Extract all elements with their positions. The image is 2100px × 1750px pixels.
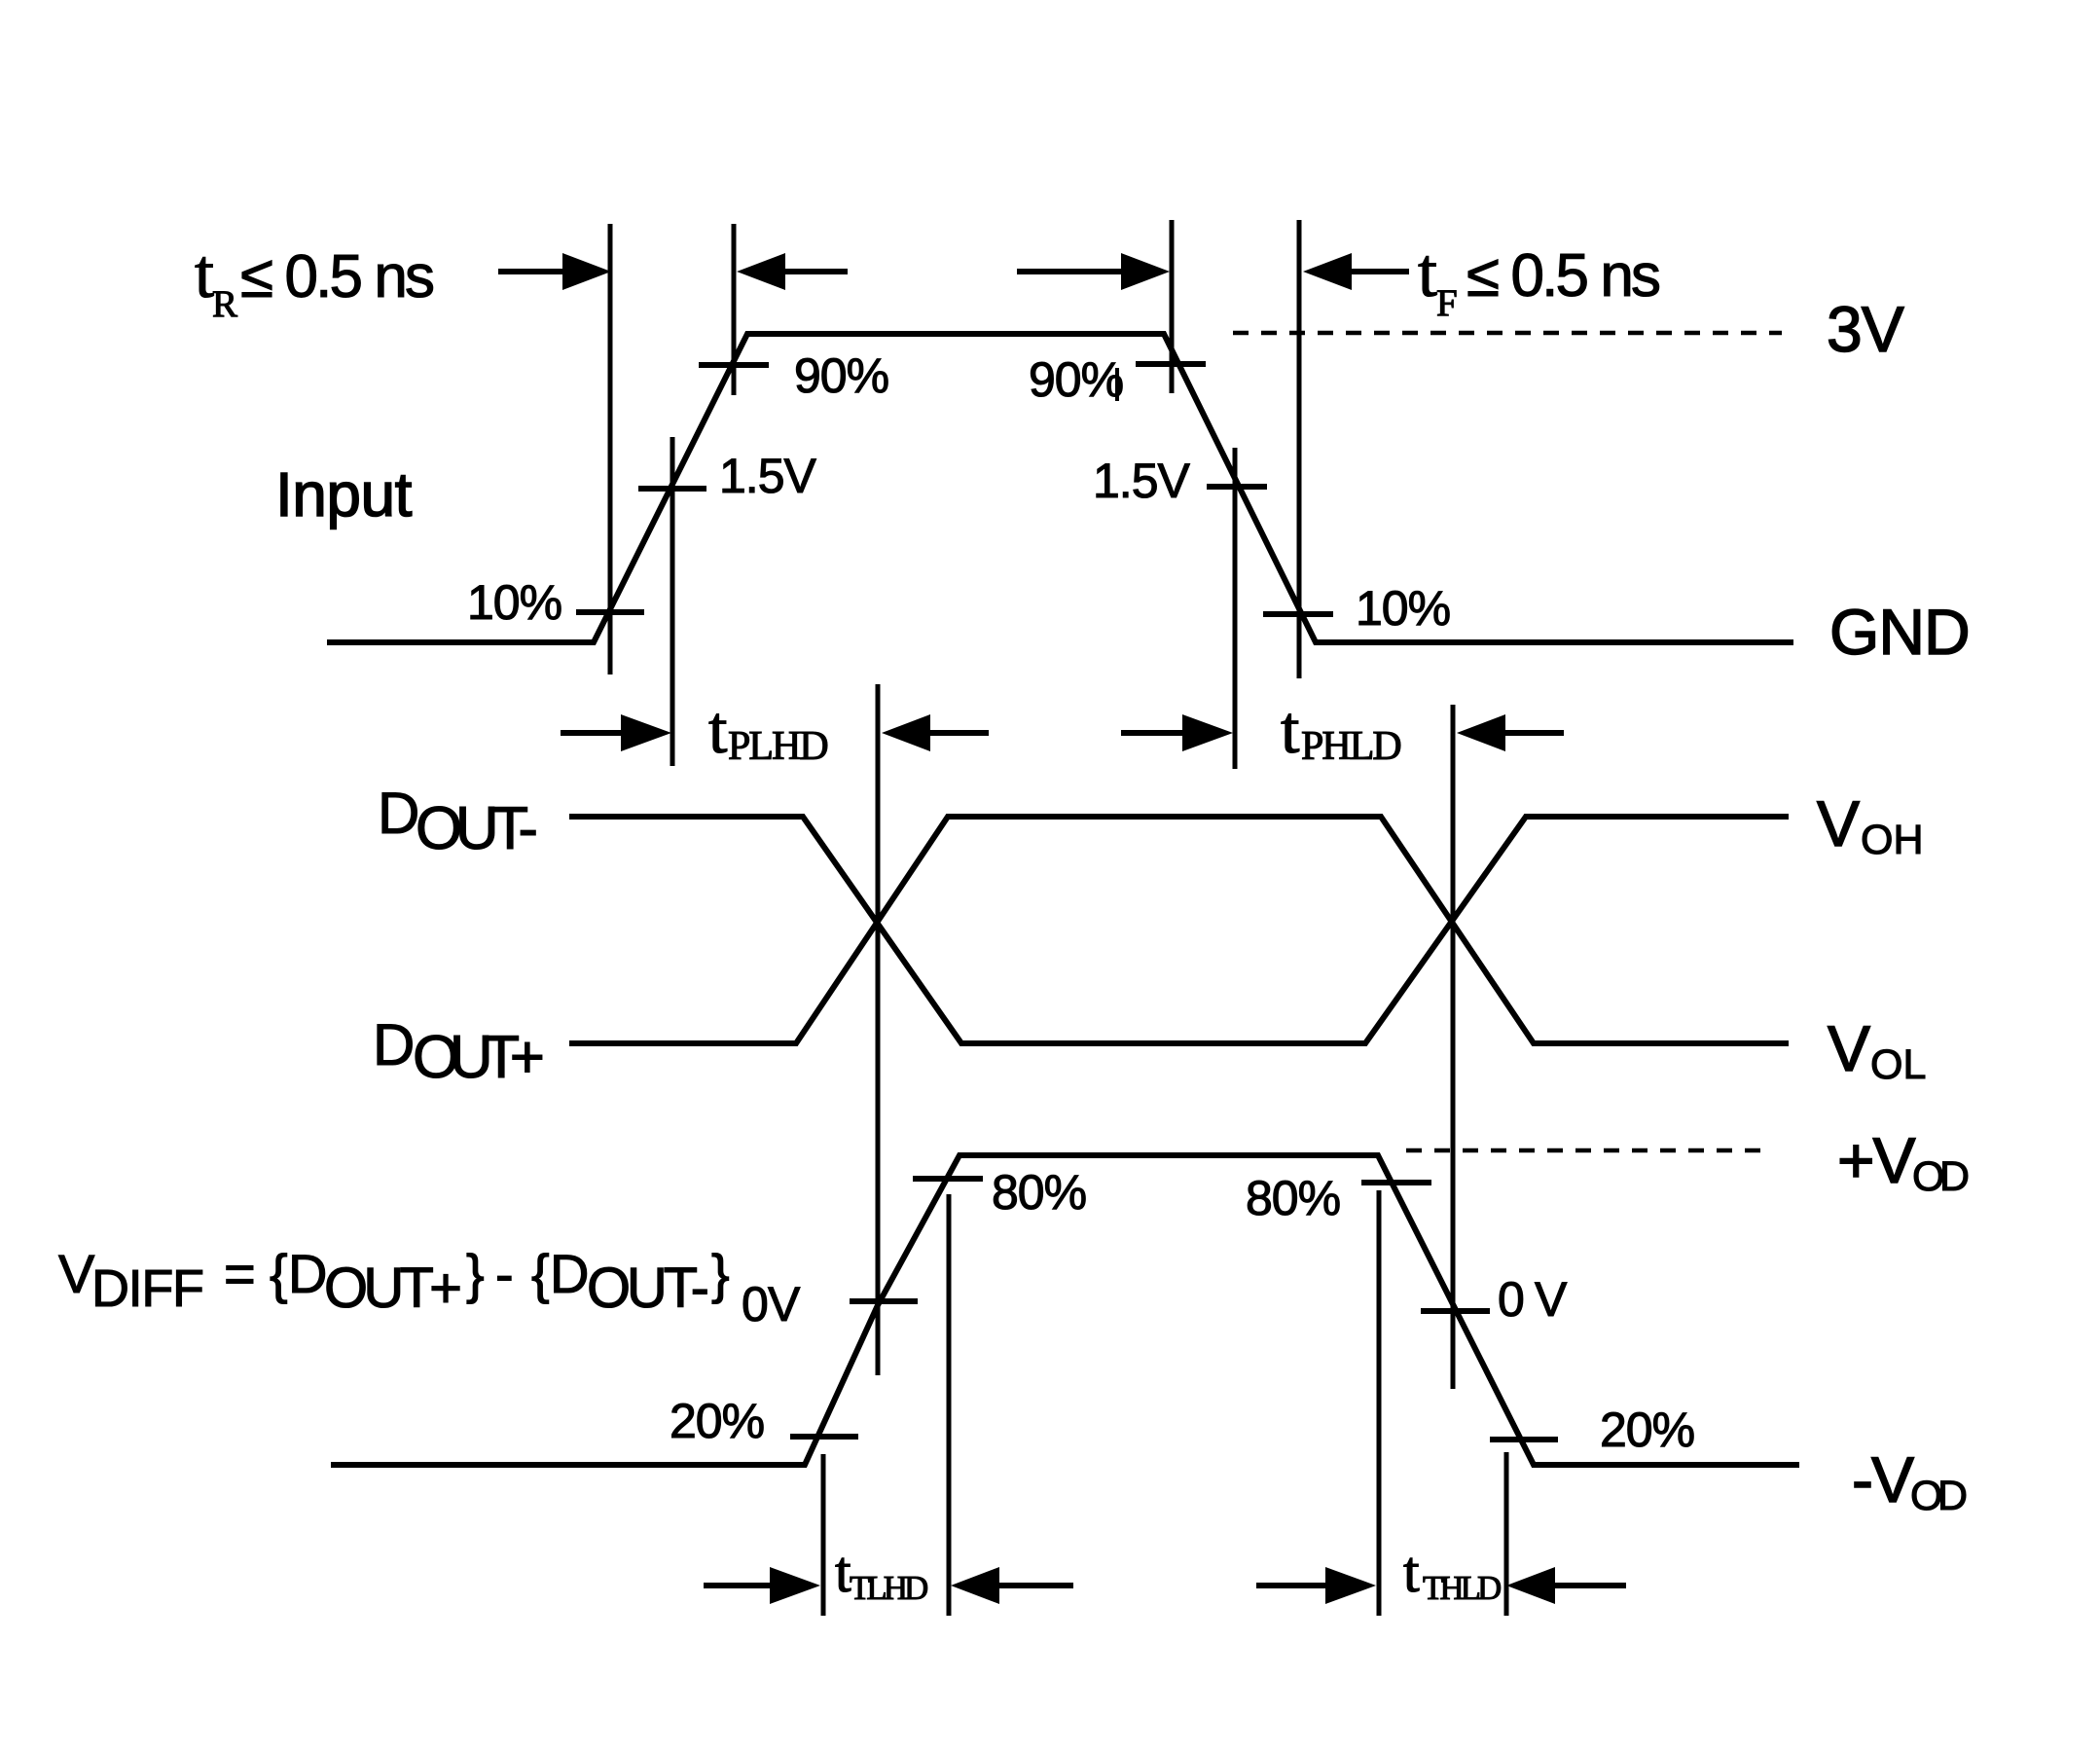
svg-text:=: = xyxy=(224,1243,256,1304)
svg-text:V: V xyxy=(58,1243,95,1304)
svg-text:{: { xyxy=(531,1243,550,1304)
svg-text:GND: GND xyxy=(1829,596,1970,668)
svg-text:PHLD: PHLD xyxy=(1301,724,1400,769)
svg-text:10%: 10% xyxy=(467,575,561,630)
svg-text:20%: 20% xyxy=(670,1394,764,1448)
svg-text:90%: 90% xyxy=(1029,352,1123,407)
svg-text:OUT-: OUT- xyxy=(416,795,538,862)
svg-text:t: t xyxy=(1281,693,1300,768)
svg-text:D: D xyxy=(550,1243,589,1304)
svg-text:-V: -V xyxy=(1852,1443,1914,1515)
svg-text:D: D xyxy=(288,1243,327,1304)
svg-text:F: F xyxy=(1436,282,1458,324)
svg-text:10%: 10% xyxy=(1356,581,1450,636)
svg-text:}: } xyxy=(711,1243,730,1304)
svg-text:Input: Input xyxy=(275,459,413,529)
svg-text:OL: OL xyxy=(1870,1041,1926,1088)
svg-text:80%: 80% xyxy=(1246,1171,1340,1225)
svg-text:}: } xyxy=(466,1243,485,1304)
svg-text:-: - xyxy=(495,1243,514,1304)
svg-text:V: V xyxy=(1828,1012,1870,1084)
svg-text:t: t xyxy=(1418,234,1437,311)
svg-text:80%: 80% xyxy=(992,1165,1086,1220)
svg-text:20%: 20% xyxy=(1600,1403,1694,1457)
svg-text:V: V xyxy=(768,1277,801,1331)
svg-text:OUT-: OUT- xyxy=(587,1257,709,1320)
svg-text:1.5V: 1.5V xyxy=(719,449,817,503)
svg-text:OH: OH xyxy=(1861,817,1924,863)
svg-text:t: t xyxy=(1403,1540,1420,1604)
svg-text:D: D xyxy=(373,1012,415,1077)
svg-text:{: { xyxy=(270,1243,288,1304)
svg-text:OD: OD xyxy=(1912,1153,1970,1200)
svg-text:V: V xyxy=(1535,1272,1568,1327)
svg-text:≤ 0.5 ns: ≤ 0.5 ns xyxy=(240,243,435,310)
svg-text:OD: OD xyxy=(1910,1473,1968,1519)
svg-text:R: R xyxy=(212,283,237,325)
svg-text:V: V xyxy=(1817,787,1860,859)
svg-text:TLHD: TLHD xyxy=(850,1569,927,1607)
svg-text:0: 0 xyxy=(1498,1272,1524,1327)
svg-text:PLHD: PLHD xyxy=(728,724,827,769)
svg-text:D: D xyxy=(378,781,419,846)
svg-text:0: 0 xyxy=(742,1277,768,1331)
svg-text:THLD: THLD xyxy=(1423,1569,1501,1607)
svg-text:≤ 0.5 ns: ≤ 0.5 ns xyxy=(1466,242,1661,310)
svg-text:1.5V: 1.5V xyxy=(1093,454,1191,508)
svg-text:DIFF: DIFF xyxy=(91,1259,204,1318)
svg-text:OUT+: OUT+ xyxy=(324,1257,462,1320)
svg-text:t: t xyxy=(195,235,214,312)
svg-text:+V: +V xyxy=(1837,1124,1916,1196)
svg-text:90%: 90% xyxy=(794,348,888,403)
svg-text:OUT+: OUT+ xyxy=(413,1024,545,1091)
svg-text:3V: 3V xyxy=(1827,293,1904,365)
svg-text:t: t xyxy=(708,693,728,768)
